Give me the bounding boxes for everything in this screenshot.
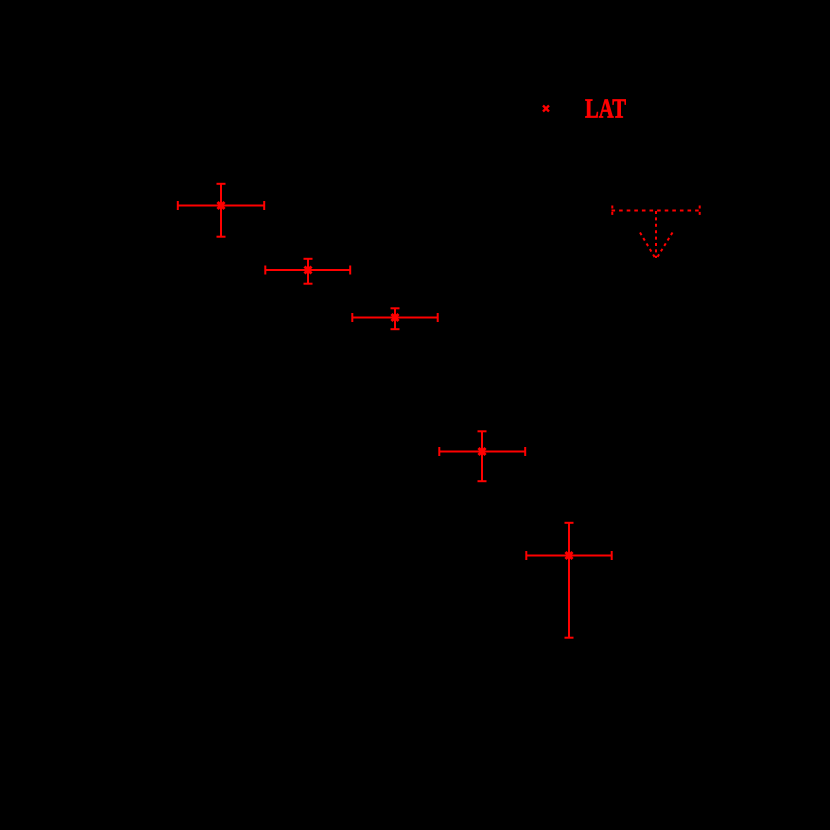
data point 3 marker <box>392 314 399 321</box>
data point 5 error bars <box>526 522 613 639</box>
legend marker (x) <box>543 106 549 112</box>
upper limit point 6 (dotted) <box>612 206 701 259</box>
data point 4 error bars <box>439 431 527 483</box>
data point 2 marker <box>305 267 312 274</box>
svg-text:LAT: LAT <box>585 94 626 124</box>
data point 4 marker <box>479 448 486 455</box>
data point 5 marker <box>566 552 573 559</box>
data point 1 error bars <box>177 183 265 238</box>
data point 1 marker <box>218 202 225 209</box>
data point 2 error bars <box>265 258 352 285</box>
data point 3 error bars <box>352 308 439 331</box>
